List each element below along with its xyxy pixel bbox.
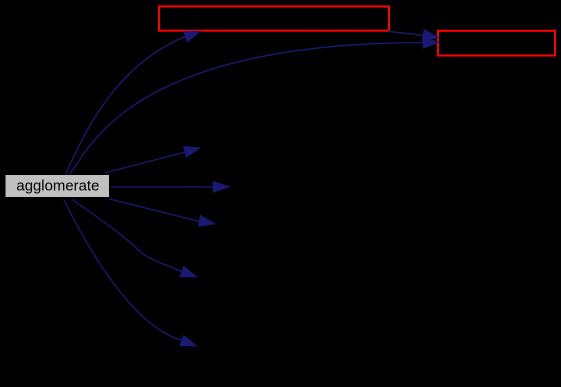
svg-text:agglomerate: agglomerate xyxy=(16,178,99,194)
